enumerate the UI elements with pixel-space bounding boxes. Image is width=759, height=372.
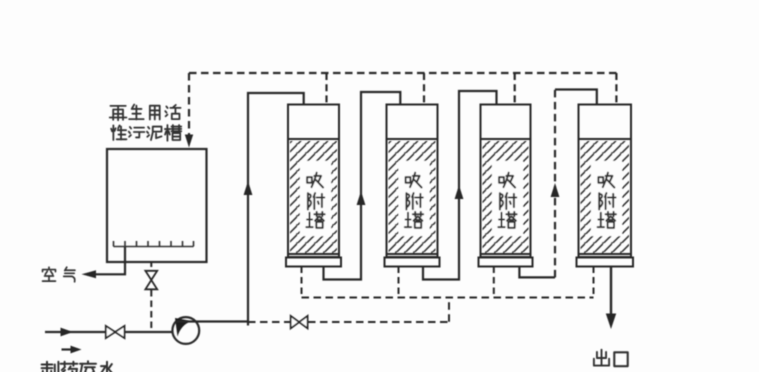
tower T2 (385, 105, 440, 267)
feed line (raw wastewater) (45, 328, 173, 337)
label: T4 吸附塔 (598, 173, 616, 228)
dashed stub tank to valve V2 (150, 262, 152, 270)
lower dashed header (302, 297, 594, 299)
T3 bottom solid outlet to riser R4 (519, 267, 555, 278)
dashed stub T2 bottom to lower header (398, 267, 400, 298)
flow direction arrow under feed line (62, 346, 82, 354)
label: T1 吸附塔 (306, 173, 324, 228)
label: T3 吸附塔 (498, 173, 516, 228)
dashed stub T1 bottom to lower header (301, 267, 303, 298)
tower T2 label patch (399, 161, 430, 236)
dashed drop to tower T1 top (325, 73, 327, 105)
pump P1 (172, 317, 199, 344)
top dashed regeneration header (189, 72, 616, 74)
label: 出口 outlet (594, 350, 628, 367)
label: 空气 air (43, 267, 75, 282)
sludge tank (107, 149, 207, 262)
tower T3 (479, 105, 533, 267)
feed valve V1 (bowtie) (106, 326, 125, 338)
riser R1: junction up and over into T1 top (244, 93, 304, 322)
tower T1 (286, 105, 341, 267)
dashed drop to tower T3 top (514, 73, 516, 105)
riser R4 solid top into T4 (555, 90, 597, 105)
T2 bottom to riser R3 into T3 top (423, 91, 497, 280)
riser R4 dashed with up arrow (551, 90, 560, 278)
label: tank line2 性污泥槽 (111, 125, 181, 141)
tank bottom valve V2 (vertical bowtie) (145, 271, 157, 290)
tank aeration diffuser comb (114, 241, 194, 247)
dashed line valve V2 to feed line (150, 290, 152, 331)
dashed recycle line from junction through valve V3 (248, 321, 449, 323)
label: 制药废水 feed (cut off at bottom) (42, 361, 115, 372)
dashed drop to sludge tank with arrow (185, 73, 193, 148)
T4 outlet arrow to exit (606, 267, 616, 330)
tower T4 label patch (591, 161, 622, 236)
dashed drop to tower T2 top (423, 73, 425, 105)
T1 bottom to riser R2 into T2 top (324, 92, 401, 280)
tower T3 label patch (492, 161, 523, 236)
tower T1 label patch (300, 161, 331, 236)
dashed drop from lower header to recycle line (448, 298, 450, 322)
label: tank line1 再生用活 (110, 105, 181, 121)
recycle valve V3 (bowtie on dashed line) (291, 316, 308, 329)
dashed stub T4 bottom to lower header (593, 267, 595, 298)
air outlet pipe (82, 247, 126, 278)
dashed stub T3 bottom to lower header (493, 267, 495, 298)
label: T2 吸附塔 (405, 173, 423, 228)
pump outlet line to riser junction (176, 322, 248, 326)
dashed drop to tower T4 top (header end corner) (615, 73, 617, 105)
tower T4 (577, 105, 634, 267)
